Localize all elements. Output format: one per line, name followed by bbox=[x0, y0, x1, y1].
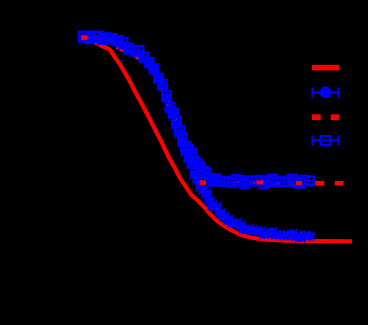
red dash bits over squares row bbox=[200, 180, 207, 185]
legend: red solid line entry bbox=[312, 65, 339, 71]
red dashed fit curve (upper) bbox=[79, 38, 309, 184]
data series: blue filled circles with error bars bbox=[79, 34, 314, 243]
data series: blue open squares with error bars bbox=[79, 31, 314, 189]
red solid fit curve (lower) bbox=[83, 40, 352, 242]
red dash segment visible at curve start bbox=[81, 35, 87, 40]
legend: red dashed line entry bbox=[312, 114, 321, 120]
legend: blue open square with error bar entry bbox=[313, 135, 339, 145]
legend: blue filled circle with error bar entry bbox=[313, 87, 339, 99]
red dashed tail segments (right of data) bbox=[315, 181, 324, 186]
